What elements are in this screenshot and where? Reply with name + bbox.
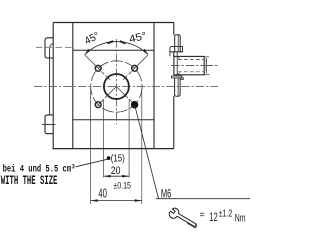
body right edge lower — [173, 96, 175, 149]
svg-text:20: 20 — [111, 165, 121, 177]
body left edge — [72, 23, 74, 149]
extension line 20 left — [103, 100, 105, 178]
cylinder chamfer bottom-left — [177, 73, 180, 75]
M6 tapped hole (filled) — [131, 101, 138, 108]
arc end arrow left — [85, 49, 91, 55]
flange face line — [176, 56, 178, 74]
arrow 40 right — [135, 199, 142, 202]
bolt hole top-right — [132, 65, 138, 71]
upper interior horizontal line — [73, 49, 154, 51]
svg-text:40: 40 — [98, 186, 107, 200]
arc mid arrow left — [107, 41, 113, 43]
arrow 20 left — [104, 175, 111, 178]
dimension line 20 — [104, 175, 130, 177]
leader to note text — [76, 159, 108, 167]
arrow 40 left — [91, 199, 98, 202]
body top edge — [53, 22, 174, 24]
end tick middle — [205, 65, 212, 67]
svg-text:=: = — [200, 210, 205, 221]
cylinder chamfer top-left — [177, 57, 180, 59]
svg-text:M6: M6 — [161, 189, 171, 201]
vertical centerline — [115, 39, 117, 125]
extension line 20 right — [128, 100, 130, 178]
fitting cylinder — [174, 56, 204, 74]
body bottom edge — [52, 148, 174, 150]
bottom flange thin block — [172, 76, 182, 78]
bottom ear cross line — [42, 123, 56, 125]
flange edge between ears — [49, 58, 51, 115]
top ear centerline — [36, 46, 73, 48]
top tab inner line — [177, 35, 179, 51]
end tick upper — [204, 56, 209, 58]
svg-text:12: 12 — [209, 210, 218, 224]
bolt hole top-left — [95, 65, 101, 71]
extension line 40 left — [90, 88, 92, 204]
fitting centerline — [171, 65, 218, 67]
extension line 40 right — [141, 88, 143, 204]
body right edge mid — [173, 52, 175, 57]
flange strip left edge — [52, 23, 54, 149]
bottom flange step right — [180, 78, 183, 79]
lower step horizontal line — [73, 119, 154, 121]
svg-text:Nm: Nm — [235, 213, 246, 225]
top ear inner line — [50, 44, 54, 59]
top flange step — [170, 52, 183, 56]
45 degree dimension arc — [85, 42, 149, 55]
svg-text:±0.15: ±0.15 — [113, 181, 131, 192]
arrow 20 right — [122, 175, 129, 178]
inner vertical cover joint — [153, 23, 155, 149]
M6 leader line — [135, 105, 159, 199]
bottom tab inner line — [177, 78, 179, 96]
body right edge upper — [173, 23, 175, 35]
port fitting bottom tab — [175, 78, 181, 96]
arc end arrow right — [143, 49, 149, 55]
horizontal centerline — [34, 85, 218, 87]
central bore circle — [104, 74, 129, 99]
end tick lower — [204, 73, 209, 75]
bolt hole bottom-left — [95, 102, 101, 108]
diagonal centerline A upper — [85, 55, 116, 86]
dimension line 40 — [91, 200, 142, 202]
top flange block — [170, 46, 183, 51]
fitting end cap line — [205, 58, 207, 73]
bolt circle — [91, 61, 142, 112]
svg-text:±1.2: ±1.2 — [219, 209, 233, 220]
diagonal centerline B lower — [95, 87, 116, 108]
left flange top ear — [45, 38, 53, 58]
reference dot (15) — [107, 156, 111, 160]
wrench icon — [168, 207, 200, 231]
port fitting top tab — [175, 35, 181, 52]
svg-text:WITH THE SIZE: WITH THE SIZE — [1, 174, 58, 188]
thread dashed line lower — [178, 71, 204, 73]
thread dashed line upper — [178, 59, 204, 61]
M6 reference line — [156, 198, 250, 200]
diagonal centerline B upper — [116, 55, 147, 86]
diagonal centerline A lower — [116, 87, 137, 108]
left flange bottom ear — [45, 115, 53, 134]
svg-text:(15): (15) — [111, 154, 125, 165]
arc mid arrow right — [120, 41, 126, 43]
